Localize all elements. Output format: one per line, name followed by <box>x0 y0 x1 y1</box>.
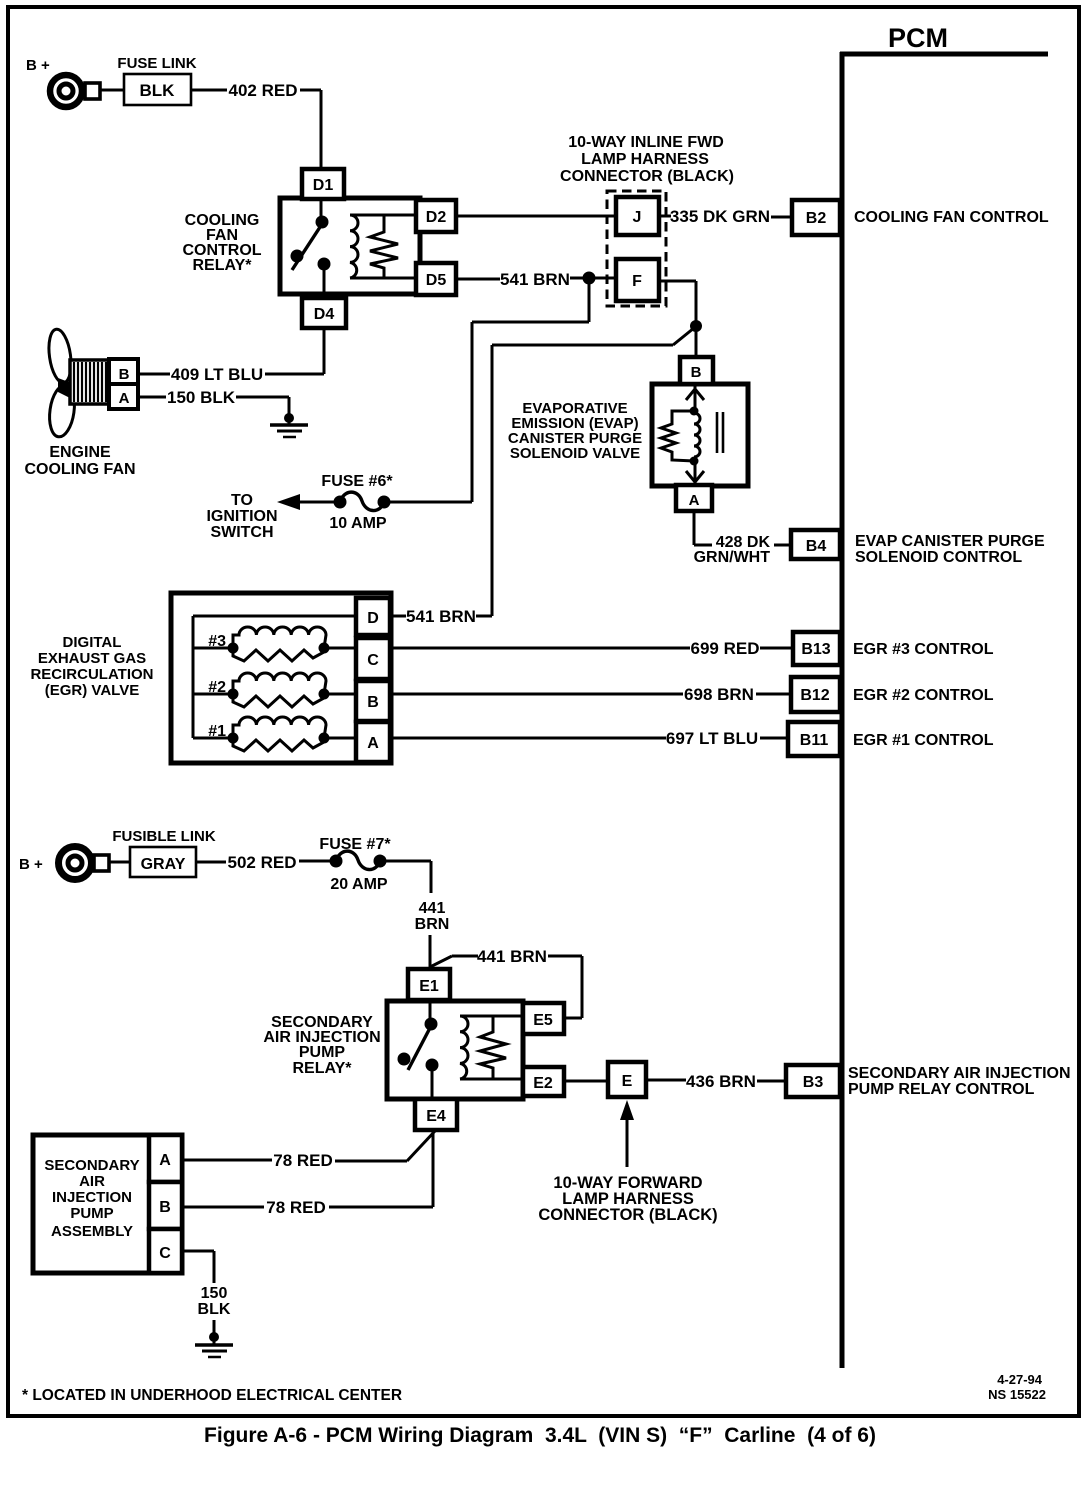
svg-text:A: A <box>367 735 379 752</box>
pump pin C <box>149 1229 182 1273</box>
PCM pin B12 <box>791 677 840 712</box>
svg-text:PUMP RELAY CONTROL: PUMP RELAY CONTROL <box>848 1081 1035 1098</box>
label SECONDARY AIR INJECTION PUMP RELAY* <box>263 1014 380 1077</box>
pump pin A <box>149 1135 182 1182</box>
wire 541 BRN (D5 to F) <box>455 270 616 289</box>
EGR pin A <box>356 722 390 762</box>
svg-text:150 BLK: 150 BLK <box>167 388 236 407</box>
label EVAP CANISTER PURGE SOLENOID CONTROL <box>855 533 1045 566</box>
svg-text:436 BRN: 436 BRN <box>686 1072 756 1091</box>
svg-text:GRN/WHT: GRN/WHT <box>694 549 771 566</box>
svg-text:B4: B4 <box>806 538 827 555</box>
svg-text:20 AMP: 20 AMP <box>330 876 388 893</box>
PCM left boundary line <box>840 52 845 1368</box>
wire 699 RED (EGR C to B13) <box>390 639 793 658</box>
wire 697 LT BLU (EGR A to B11) <box>390 729 788 748</box>
wire 409 LT BLU (fan B to D4) <box>138 328 324 384</box>
wire 436 BRN (E to B3) <box>646 1072 786 1091</box>
relay K1 coil <box>350 215 416 278</box>
svg-text:E1: E1 <box>419 978 439 995</box>
ring terminal (lower B+) <box>59 847 110 880</box>
relay K2 secondary air injection pump relay box <box>387 1001 523 1099</box>
svg-text:F: F <box>632 273 642 290</box>
svg-text:697 LT BLU: 697 LT BLU <box>666 729 758 748</box>
svg-text:441 BRN: 441 BRN <box>477 947 547 966</box>
relay K1 cooling fan control relay box <box>280 198 420 294</box>
svg-text:B3: B3 <box>803 1074 824 1091</box>
EVAP pin A <box>676 485 712 511</box>
ground (engine cooling fan) <box>270 413 308 437</box>
svg-text:ENGINE: ENGINE <box>49 444 111 461</box>
label 10-WAY FORWARD LAMP HARNESS CONNECTOR (BLACK) <box>538 1174 717 1224</box>
svg-text:EXHAUST GAS: EXHAUST GAS <box>38 650 146 667</box>
pin E5 <box>523 1003 564 1034</box>
wire E2 to connector E <box>564 1080 608 1083</box>
label SECONDARY AIR INJECTION PUMP RELAY CONTROL <box>848 1065 1071 1098</box>
wire 150 BLK (pump C to ground) <box>182 1251 231 1334</box>
svg-text:E4: E4 <box>426 1108 446 1125</box>
svg-text:BRN: BRN <box>415 916 450 933</box>
EGR coil #2 <box>208 673 356 707</box>
EVAP solenoid valve box <box>652 384 748 486</box>
svg-text:FUSE #7*: FUSE #7* <box>319 836 391 853</box>
svg-text:EGR #2 CONTROL: EGR #2 CONTROL <box>853 687 994 704</box>
svg-text:FUSIBLE LINK: FUSIBLE LINK <box>112 828 215 845</box>
svg-text:E2: E2 <box>533 1075 553 1092</box>
svg-text:PCM: PCM <box>888 23 948 53</box>
wire 335 DK GRN (J to B2) <box>659 207 792 226</box>
svg-text:409 LT BLU: 409 LT BLU <box>171 365 263 384</box>
svg-text:CONNECTOR (BLACK): CONNECTOR (BLACK) <box>538 1206 717 1224</box>
svg-text:441: 441 <box>419 900 446 917</box>
wire 698 BRN (EGR B to B12) <box>390 685 791 704</box>
fusible link GRAY <box>130 847 196 877</box>
label DIGITAL EXHAUST GAS RECIRCULATION (EGR) VALVE <box>30 634 153 699</box>
svg-text:PUMP: PUMP <box>299 1044 346 1061</box>
svg-text:RELAY*: RELAY* <box>293 1060 353 1077</box>
EGR pin B <box>356 681 390 721</box>
wire 150 BLK (fan A to ground) <box>138 388 289 415</box>
svg-text:D1: D1 <box>313 177 334 194</box>
svg-text:(EGR) VALVE: (EGR) VALVE <box>45 682 139 699</box>
relay K2 coil <box>460 1016 523 1079</box>
svg-text:CONNECTOR (BLACK): CONNECTOR (BLACK) <box>560 168 734 185</box>
svg-text:GRAY: GRAY <box>141 856 186 873</box>
svg-text:541 BRN: 541 BRN <box>406 607 476 626</box>
EGR pin C <box>356 638 390 679</box>
connector pin F <box>616 259 659 301</box>
pin E4 <box>415 1099 457 1130</box>
fuse link BLK <box>124 74 191 105</box>
PCM pin B2 <box>792 200 840 235</box>
svg-text:BLK: BLK <box>198 1301 231 1318</box>
ground (pump assembly) <box>195 1332 233 1357</box>
wire 441 BRN branch to E5 <box>430 947 582 1018</box>
svg-text:B12: B12 <box>800 687 829 704</box>
junction dot below F <box>690 320 702 332</box>
svg-text:Figure A-6 - PCM Wiring Diagra: Figure A-6 - PCM Wiring Diagram 3.4L (VI… <box>204 1424 876 1447</box>
ring terminal (top B+) <box>50 75 100 107</box>
svg-text:INJECTION: INJECTION <box>52 1189 132 1206</box>
svg-text:B: B <box>159 1199 171 1216</box>
svg-text:TO: TO <box>231 492 253 509</box>
pin D2 <box>416 200 456 232</box>
svg-text:IGNITION: IGNITION <box>206 508 277 525</box>
label COOLING FAN CONTROL RELAY* <box>182 212 261 274</box>
svg-text:C: C <box>159 1245 171 1262</box>
svg-text:COOLING FAN: COOLING FAN <box>24 461 135 478</box>
svg-text:D2: D2 <box>426 209 447 226</box>
svg-text:B2: B2 <box>806 210 827 227</box>
svg-text:RECIRCULATION: RECIRCULATION <box>30 666 153 683</box>
wire ring terminal to fuse link <box>99 89 124 92</box>
wire 78 RED (pump A to E4) <box>182 1131 435 1170</box>
svg-text:AIR: AIR <box>79 1173 105 1190</box>
svg-text:502 RED: 502 RED <box>228 853 297 872</box>
svg-text:D5: D5 <box>426 272 447 289</box>
dashed connector outline <box>607 191 666 306</box>
svg-text:4-27-94: 4-27-94 <box>997 1372 1043 1387</box>
wire 441 BRN vertical feed <box>386 861 449 969</box>
svg-text:402 RED: 402 RED <box>229 81 298 100</box>
svg-text:335 DK GRN: 335 DK GRN <box>670 207 770 226</box>
svg-text:C: C <box>367 652 379 669</box>
EGR valve box <box>171 593 391 763</box>
svg-text:FUSE #6*: FUSE #6* <box>321 473 393 490</box>
svg-text:#2: #2 <box>208 679 226 696</box>
wire 402 RED <box>191 81 321 170</box>
svg-text:EVAP CANISTER PURGE: EVAP CANISTER PURGE <box>855 533 1045 550</box>
wire 541 BRN (EGR D) <box>391 607 476 626</box>
fuse #7 <box>330 851 387 869</box>
secondary air injection pump assembly box <box>33 1135 182 1273</box>
wire D2 to connector J <box>456 215 616 218</box>
label SECONDARY AIR INJECTION PUMP ASSEMBLY <box>44 1157 139 1240</box>
arrow to connector E <box>620 1100 634 1167</box>
pin D1 <box>302 169 344 199</box>
wire 541 BRN branch to EGR D <box>476 328 694 616</box>
svg-text:PUMP: PUMP <box>70 1205 113 1222</box>
svg-text:LAMP HARNESS: LAMP HARNESS <box>581 151 709 168</box>
svg-text:10 AMP: 10 AMP <box>329 515 387 532</box>
svg-text:SECONDARY: SECONDARY <box>44 1157 139 1174</box>
svg-text:BLK: BLK <box>140 81 176 100</box>
svg-text:10-WAY INLINE FWD: 10-WAY INLINE FWD <box>568 134 724 151</box>
svg-text:* LOCATED IN UNDERHOOD ELECTRI: * LOCATED IN UNDERHOOD ELECTRICAL CENTER <box>22 1387 402 1404</box>
svg-text:B: B <box>367 694 379 711</box>
svg-text:B13: B13 <box>801 641 830 658</box>
EGR coil #3 <box>208 627 356 661</box>
svg-text:B: B <box>119 366 130 383</box>
arrow to ignition switch <box>277 494 334 510</box>
relay K2 switch <box>398 1000 439 1099</box>
wire F to EVAP B junction <box>659 281 696 357</box>
wire junction to ignition switch feed <box>390 278 589 502</box>
svg-text:E: E <box>622 1073 633 1090</box>
label ENGINE COOLING FAN <box>24 444 135 478</box>
wire 502 RED <box>196 853 330 872</box>
svg-text:B11: B11 <box>800 732 829 749</box>
pin D4 <box>302 298 346 328</box>
EVAP solenoid internals <box>661 384 723 485</box>
svg-text:B +: B + <box>26 57 50 74</box>
svg-text:B: B <box>691 364 702 381</box>
svg-text:J: J <box>633 209 642 226</box>
svg-text:E5: E5 <box>533 1012 553 1029</box>
connector pin J <box>616 197 659 235</box>
svg-text:COOLING FAN CONTROL: COOLING FAN CONTROL <box>854 209 1049 226</box>
EGR common bus wiring <box>193 616 356 738</box>
PCM top boundary line <box>840 52 1048 57</box>
svg-text:D: D <box>367 610 379 627</box>
EVAP pin B <box>680 357 713 384</box>
pin D5 <box>416 263 456 295</box>
svg-text:#3: #3 <box>208 633 226 650</box>
svg-text:698 BRN: 698 BRN <box>684 685 754 704</box>
wire ring terminal to fusible link <box>109 861 130 864</box>
svg-text:EGR #3 CONTROL: EGR #3 CONTROL <box>853 641 994 658</box>
relay K1 switch <box>291 199 331 298</box>
EGR pin D <box>356 598 390 635</box>
svg-text:SWITCH: SWITCH <box>210 524 273 541</box>
engine cooling fan blades <box>46 328 78 439</box>
fan connector pins B / A <box>109 359 138 409</box>
svg-text:D4: D4 <box>314 306 335 323</box>
svg-text:SECONDARY AIR INJECTION: SECONDARY AIR INJECTION <box>848 1065 1071 1082</box>
label TO IGNITION SWITCH <box>206 492 277 541</box>
svg-text:#1: #1 <box>208 723 226 740</box>
wire 78 RED (pump B to E4) <box>182 1130 433 1217</box>
connector pin E (10-way forward) <box>608 1062 646 1097</box>
svg-text:150: 150 <box>201 1285 228 1302</box>
EGR coil #1 <box>208 717 356 751</box>
svg-text:A: A <box>689 492 700 509</box>
label 10-WAY INLINE FWD LAMP HARNESS CONNECTOR (BLACK) <box>560 134 734 185</box>
junction dot on 541 BRN <box>583 272 596 285</box>
svg-text:A: A <box>159 1152 171 1169</box>
pump pin B <box>149 1182 182 1229</box>
svg-text:DIGITAL: DIGITAL <box>63 634 122 651</box>
svg-text:EGR #1 CONTROL: EGR #1 CONTROL <box>853 732 994 749</box>
svg-text:SOLENOID VALVE: SOLENOID VALVE <box>510 445 640 462</box>
svg-text:699 RED: 699 RED <box>691 639 760 658</box>
svg-text:B +: B + <box>19 856 43 873</box>
svg-text:A: A <box>119 390 130 407</box>
PCM pin B13 <box>793 632 840 665</box>
svg-text:541 BRN: 541 BRN <box>500 270 570 289</box>
svg-text:78 RED: 78 RED <box>266 1198 326 1217</box>
fan motor <box>70 360 111 404</box>
svg-text:ASSEMBLY: ASSEMBLY <box>51 1223 133 1240</box>
PCM pin B11 <box>788 722 840 756</box>
fuse #6 <box>334 492 391 510</box>
svg-text:NS 15522: NS 15522 <box>988 1387 1046 1402</box>
svg-text:78 RED: 78 RED <box>273 1151 333 1170</box>
label EVAPORATIVE EMISSION (EVAP) CANISTER PURGE SOLENOID VALVE <box>508 400 642 462</box>
svg-text:FUSE LINK: FUSE LINK <box>117 55 196 72</box>
revision date <box>988 1372 1046 1402</box>
PCM pin B4 <box>791 530 840 559</box>
PCM pin B3 <box>786 1065 840 1097</box>
svg-text:SOLENOID CONTROL: SOLENOID CONTROL <box>855 549 1022 566</box>
svg-text:RELAY*: RELAY* <box>193 257 253 274</box>
pin E1 <box>408 969 450 1000</box>
wire 428 DK GRN/WHT (EVAP A to B4) <box>694 511 791 566</box>
pin E2 <box>523 1067 564 1096</box>
